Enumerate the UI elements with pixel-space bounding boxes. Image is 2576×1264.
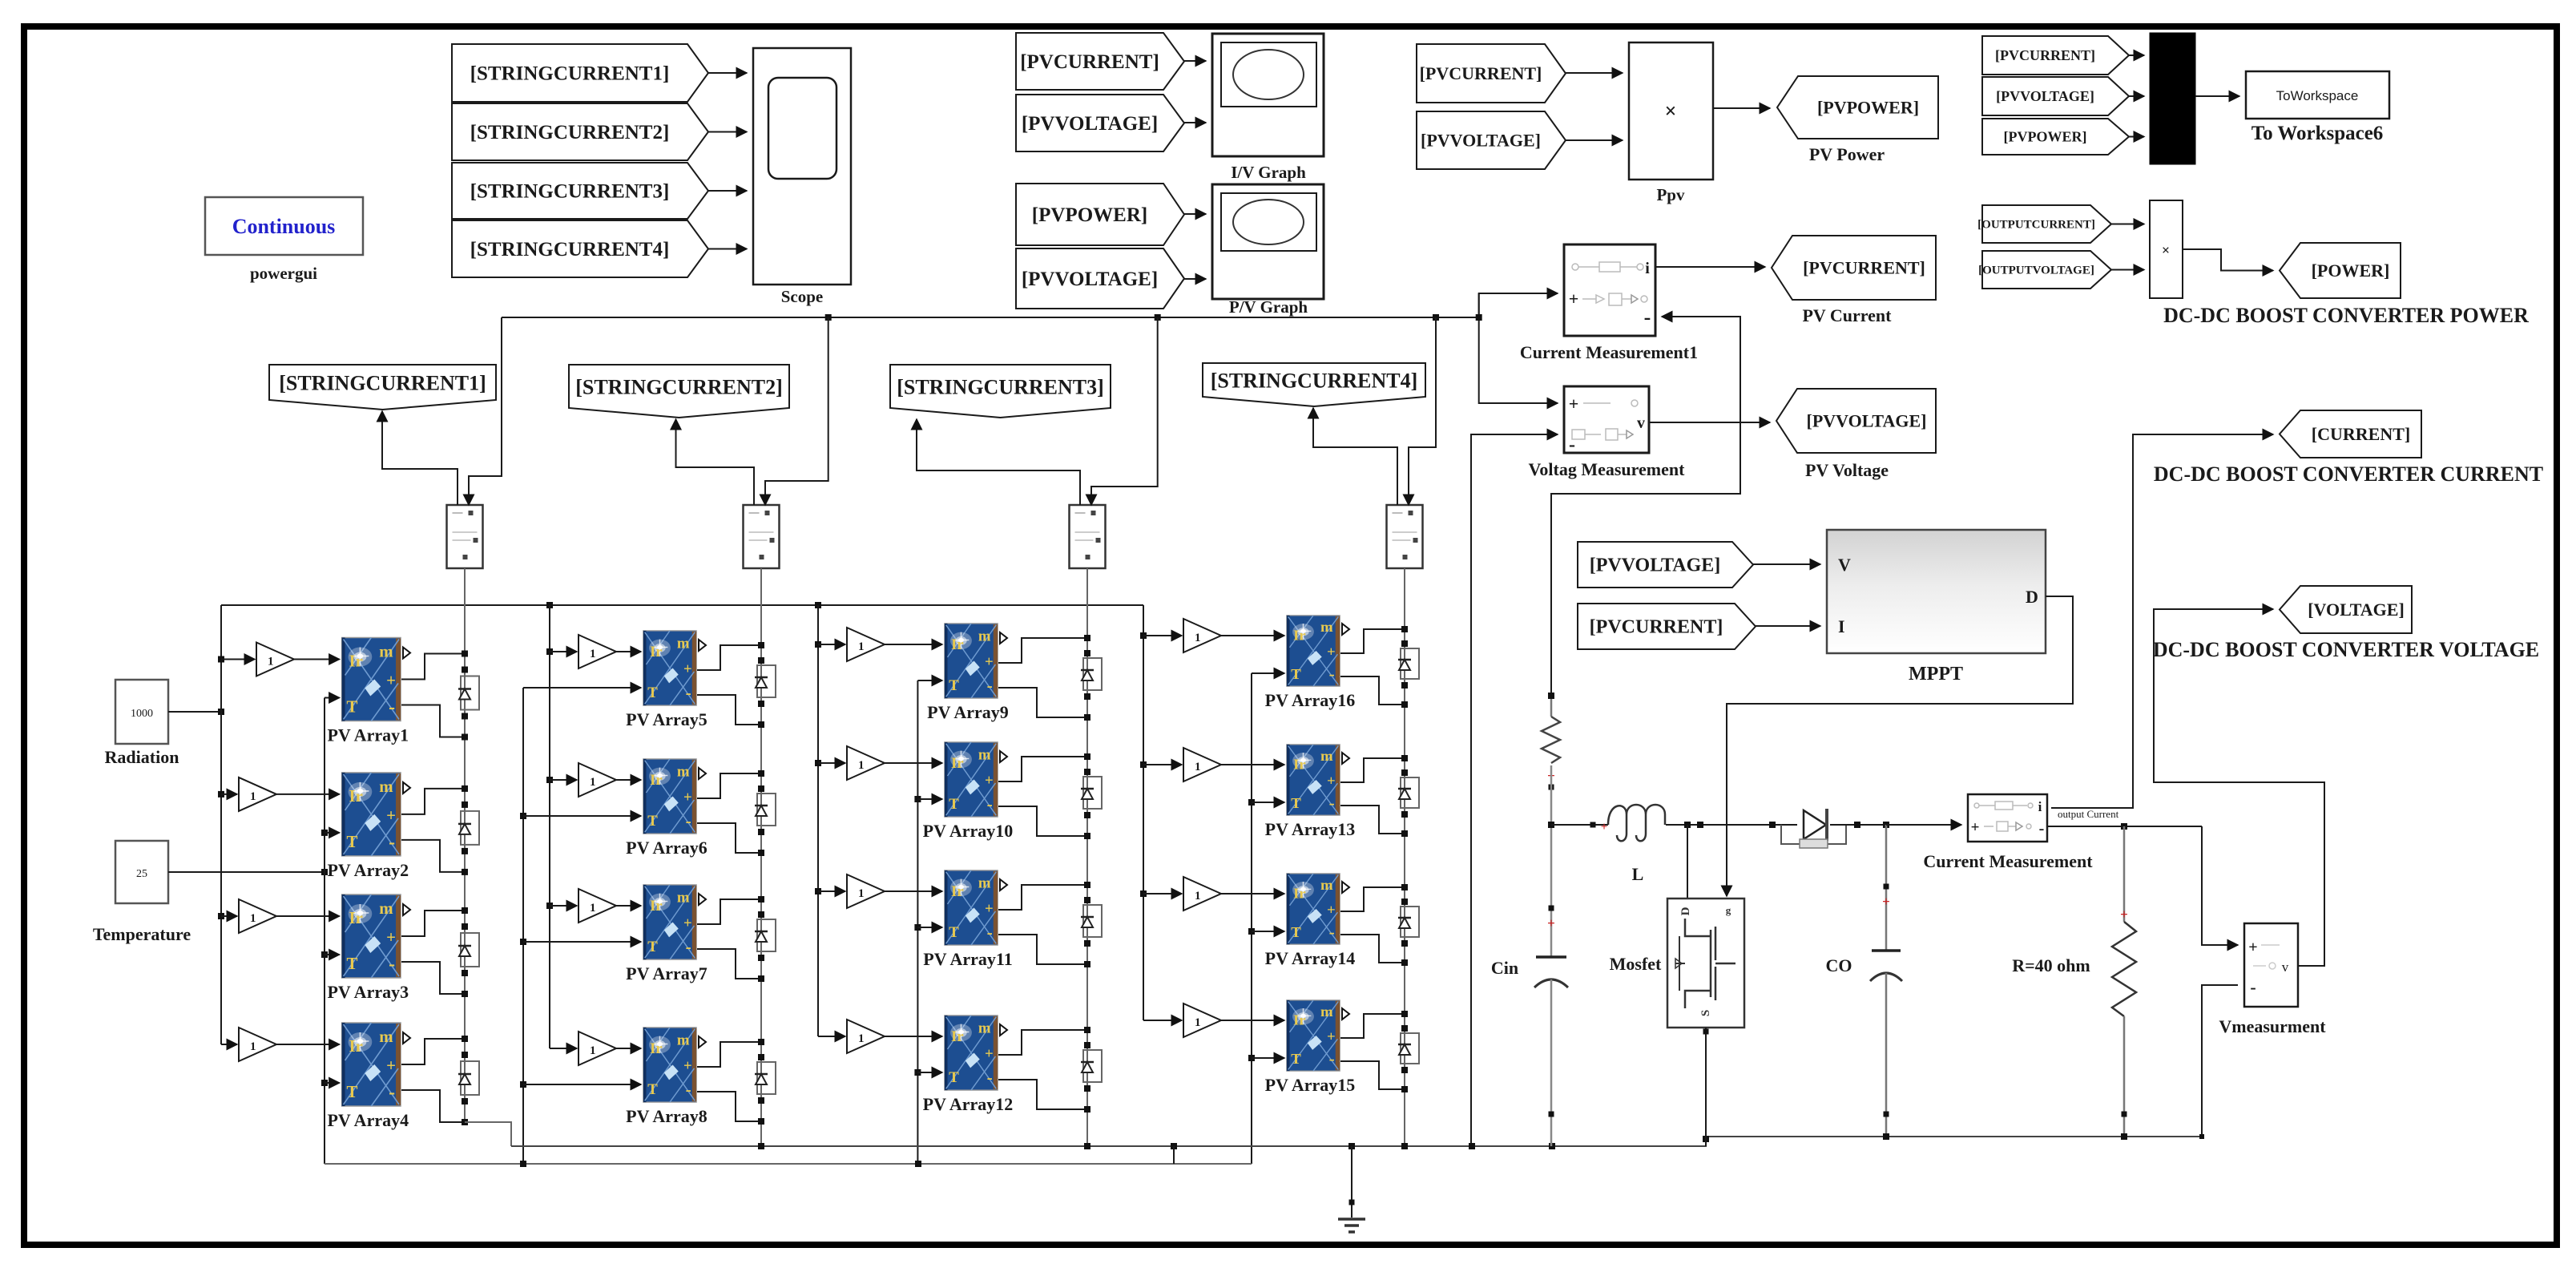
gain block string4 row4 bbox=[1183, 1004, 1221, 1037]
node temperature feed bbox=[321, 869, 328, 875]
wire radiation bus string4 bbox=[1143, 605, 1144, 1020]
wire - of PV Array13 to bus bbox=[1340, 806, 1405, 834]
bypass diode PV Array16 bbox=[1401, 648, 1419, 679]
wire radiation rail bbox=[221, 604, 1143, 606]
node - tap PV Array12 bbox=[1084, 1106, 1090, 1113]
node diode taps PV Array3 bbox=[462, 923, 468, 930]
node radiation tap string3 bbox=[815, 760, 821, 766]
svg-text:PV Array1: PV Array1 bbox=[327, 725, 409, 745]
wire radiation to gain s2r4 bbox=[550, 1048, 577, 1049]
node diode taps PV Array9 bbox=[1084, 650, 1090, 656]
wire radiation to gain s3r4 bbox=[818, 1036, 845, 1037]
svg-text:g: g bbox=[1726, 904, 1731, 916]
svg-text:i: i bbox=[1645, 260, 1650, 277]
PV array block PV Array6 bbox=[643, 759, 696, 834]
wire string2 i to tag bbox=[676, 419, 755, 505]
node - tap PV Array6 bbox=[758, 850, 764, 856]
bypass diode PV Array6 bbox=[757, 794, 776, 826]
svg-text:[OUTPUTVOLTAGE]: [OUTPUTVOLTAGE] bbox=[1978, 265, 2094, 277]
m port PV Array7 bbox=[699, 894, 706, 905]
wire gain to Ir s2r4 bbox=[616, 1048, 641, 1049]
svg-text:PV Array10: PV Array10 bbox=[923, 821, 1014, 841]
scope block Scope bbox=[753, 48, 851, 285]
wire + of PV Array8 to bus bbox=[697, 1042, 761, 1067]
node R bottom bbox=[2121, 1133, 2127, 1140]
svg-text:PV Array2: PV Array2 bbox=[327, 860, 409, 880]
From tag [PVPOWER] (to P/V Graph) bbox=[1016, 184, 1184, 245]
node temperature tap string4 bbox=[1248, 799, 1255, 806]
svg-text:output Current: output Current bbox=[2058, 808, 2119, 820]
wire radiation to gain s3r1 bbox=[818, 644, 845, 645]
wire string4 i to tag bbox=[1313, 408, 1397, 505]
PV array block PV Array3 bbox=[342, 894, 401, 978]
node + tap PV Array4 bbox=[462, 1036, 468, 1042]
port marker R bottom bbox=[2122, 1112, 2127, 1117]
svg-text:Current Measurement: Current Measurement bbox=[1923, 851, 2093, 871]
bypass diode PV Array8 bbox=[757, 1062, 776, 1094]
svg-text:[PVPOWER]: [PVPOWER] bbox=[1817, 97, 1919, 117]
From tag [STRINGCURRENT4] (to Scope) bbox=[452, 220, 708, 277]
From tag [PVVOLTAGE] (to I/V Graph) bbox=[1016, 95, 1184, 151]
wire temperature bus string2 bbox=[522, 688, 524, 1164]
wire temperature bus string4 bbox=[1251, 673, 1252, 1164]
node - tap PV Array7 bbox=[758, 975, 764, 982]
wire radiation bus string2 bbox=[549, 605, 550, 1048]
port marker Cin cap bbox=[1549, 906, 1554, 911]
node radiation tap string2 bbox=[546, 777, 553, 783]
node PV+ rail junctions bbox=[825, 314, 832, 321]
wire [PVCURRENT] to mux bbox=[2129, 55, 2144, 56]
gain block string3 row1 bbox=[847, 628, 885, 661]
I/V Graph scope block bbox=[1212, 34, 1324, 156]
wire + of PV Array12 to bus bbox=[998, 1030, 1087, 1055]
node diode taps PV Array2 bbox=[462, 802, 468, 808]
product block Ppv bbox=[1629, 42, 1713, 180]
node R branch top bbox=[2121, 823, 2127, 830]
svg-text:I: I bbox=[1838, 616, 1845, 636]
current measurement block string1 bbox=[447, 505, 483, 568]
wire T bus to T input s2r2 bbox=[523, 815, 641, 817]
wire [STRINGCURRENT2] to Scope bbox=[708, 131, 747, 133]
svg-text:+: + bbox=[2120, 907, 2128, 922]
wire + of PV Array5 to bus bbox=[697, 645, 761, 670]
m port PV Array11 bbox=[1000, 879, 1007, 890]
wire + of PV Array14 to bus bbox=[1340, 887, 1405, 911]
wire gain to Ir s3r2 bbox=[885, 762, 942, 764]
wire radiation to gain s1r3 bbox=[221, 915, 237, 917]
node + tap PV Array11 bbox=[1084, 882, 1090, 888]
svg-text:D: D bbox=[1679, 907, 1692, 915]
wire T bus to T input s3r1 bbox=[917, 680, 942, 681]
node Vmeasurment bottom corner bbox=[2199, 1134, 2204, 1139]
wire mux to To Workspace6 bbox=[2195, 95, 2239, 97]
svg-text:×: × bbox=[2162, 242, 2170, 258]
node + tap PV Array3 bbox=[462, 907, 468, 914]
node temperature tap string1 bbox=[321, 830, 328, 836]
wire radiation to gain s2r3 bbox=[550, 905, 577, 907]
wire radiation to gain s4r3 bbox=[1143, 893, 1182, 894]
gain block string2 row2 bbox=[578, 763, 616, 797]
svg-text:MPPT: MPPT bbox=[1909, 664, 1963, 684]
wire PV+ rail (strings to measurement) bbox=[502, 317, 1479, 318]
node + tap PV Array10 bbox=[1084, 753, 1090, 760]
svg-text:powergui: powergui bbox=[250, 264, 317, 283]
svg-text:PV Voltage: PV Voltage bbox=[1805, 460, 1889, 480]
wire - of PV Array4 to bus bbox=[401, 1090, 465, 1122]
wire T bus to T input s1r1 bbox=[325, 697, 340, 699]
svg-text:[OUTPUTCURRENT]: [OUTPUTCURRENT] bbox=[1977, 219, 2095, 232]
gain block string1 row2 bbox=[239, 777, 276, 811]
wire T bus to T input s3r4 bbox=[917, 1072, 942, 1073]
wire PVVOLTAGE to MPPT V bbox=[1753, 563, 1820, 565]
wire gain to Ir s1r4 bbox=[276, 1044, 340, 1045]
svg-text:[PVVOLTAGE]: [PVVOLTAGE] bbox=[1022, 113, 1158, 135]
wire + of PV Array3 to bus bbox=[401, 911, 465, 936]
wire output node down to Vmeasurment + bbox=[2202, 826, 2238, 945]
resistor R=40 ohm bbox=[2112, 922, 2136, 1016]
wire radiation to gain s4r4 bbox=[1143, 1020, 1182, 1021]
wire [PVPOWER] to mux bbox=[2129, 136, 2144, 138]
node diode taps PV Array11 bbox=[1084, 897, 1090, 903]
wire gain to Ir s2r2 bbox=[616, 779, 641, 781]
wire mosfet source to bus bbox=[1705, 1028, 1707, 1146]
node diode taps PV Array8 bbox=[758, 1054, 764, 1060]
Goto tag [STRINGCURRENT2] bbox=[569, 365, 789, 418]
m port PV Array15 bbox=[1342, 1008, 1349, 1020]
wire string3 i to tag bbox=[917, 419, 1080, 505]
wire + of PV Array1 to bus bbox=[401, 654, 465, 680]
node - tap PV Array15 bbox=[1401, 1086, 1408, 1092]
m port PV Array13 bbox=[1342, 753, 1349, 764]
wire PV+ node to Voltag Measurement + bbox=[1479, 293, 1558, 403]
node radiation rail junctions bbox=[546, 602, 553, 608]
svg-text:PV Array6: PV Array6 bbox=[626, 838, 707, 858]
wire string1 series bus bbox=[464, 568, 466, 1122]
gain block string4 row2 bbox=[1183, 748, 1221, 781]
node temperature tap string3 bbox=[914, 924, 921, 931]
wire boost rail left bbox=[1551, 824, 1608, 826]
svg-text:[POWER]: [POWER] bbox=[2312, 260, 2390, 281]
gain block string2 row1 bbox=[578, 635, 616, 668]
node diode taps PV Array12 bbox=[1084, 1042, 1090, 1048]
wire + of PV Array13 to bus bbox=[1340, 758, 1405, 782]
wire T bus to T input s1r3 bbox=[325, 954, 340, 955]
svg-text:v: v bbox=[2282, 959, 2289, 975]
svg-text:Temperature: Temperature bbox=[93, 924, 191, 944]
node temperature tap string2 bbox=[520, 813, 526, 819]
svg-text:+: + bbox=[1569, 394, 1579, 414]
node radiation tap string4 bbox=[1140, 632, 1147, 639]
wire gain to Ir s1r1 bbox=[294, 659, 340, 660]
node radiation tap string1 bbox=[218, 913, 224, 919]
svg-text:[PVCURRENT]: [PVCURRENT] bbox=[1420, 63, 1542, 83]
svg-text:Cin: Cin bbox=[1491, 958, 1518, 978]
bypass diode PV Array14 bbox=[1401, 907, 1419, 937]
wire T bus to T input s2r4 bbox=[523, 1084, 641, 1085]
node temperature tap string2 bbox=[520, 939, 526, 945]
wire - of PV Array5 to bus bbox=[697, 695, 761, 725]
svg-text:v: v bbox=[1637, 414, 1645, 432]
svg-text:CO: CO bbox=[1826, 955, 1852, 975]
svg-text:[STRINGCURRENT3]: [STRINGCURRENT3] bbox=[897, 375, 1104, 398]
wire T bus to T input s4r3 bbox=[1252, 931, 1284, 932]
svg-text:R=40 ohm: R=40 ohm bbox=[2012, 955, 2090, 975]
gain block string2 row3 bbox=[578, 889, 616, 923]
svg-text:PV Power: PV Power bbox=[1809, 144, 1885, 164]
current measurement block Current Measurement1 bbox=[1564, 244, 1655, 336]
wire MPPT D output to Mosfet gate bbox=[1727, 596, 2073, 896]
wire radiation to gain s2r2 bbox=[550, 779, 577, 781]
wire string4 top to PV+ rail bbox=[1409, 317, 1436, 505]
wire temperature bus string3 bbox=[917, 680, 918, 1164]
node after diode bbox=[1854, 822, 1860, 828]
svg-text:S: S bbox=[1699, 1010, 1712, 1016]
node mosfet source bbox=[1703, 1029, 1709, 1035]
wire Ppv to PVPOWER tag bbox=[1713, 107, 1770, 109]
wire boost rail inductor to diode bbox=[1666, 824, 1797, 826]
wire mosfet drain bbox=[1687, 825, 1688, 899]
wire R to bottom bus bbox=[2123, 1016, 2126, 1137]
wire Current Measurement - to output node bbox=[2047, 826, 2202, 827]
Goto tag [PVCURRENT] PV Current bbox=[1772, 236, 1936, 300]
node + tap PV Array9 bbox=[1084, 635, 1090, 641]
svg-text:ToWorkspace: ToWorkspace bbox=[2276, 88, 2359, 103]
gain block string3 row2 bbox=[847, 746, 885, 780]
wire OUTPUTCURRENT to product bbox=[2111, 224, 2144, 225]
svg-text:DC-DC BOOST CONVERTER CURRENT: DC-DC BOOST CONVERTER CURRENT bbox=[2154, 462, 2543, 486]
node temperature tap string3 bbox=[914, 1069, 921, 1076]
wire [STRINGCURRENT4] to Scope bbox=[708, 248, 747, 250]
wire Vmeasurment v to VOLTAGE tag bbox=[2154, 609, 2324, 966]
wire radiation to gain s1r1 bbox=[221, 659, 255, 660]
wire - of PV Array16 to bus bbox=[1340, 676, 1405, 705]
node + tap PV Array13 bbox=[1401, 755, 1408, 761]
bypass diode PV Array3 bbox=[461, 933, 479, 967]
wire gain to Ir s1r2 bbox=[276, 794, 340, 795]
From tag [PVVOLTAGE] (to P/V Graph) bbox=[1016, 248, 1184, 309]
port marker CO bbox=[1884, 884, 1889, 890]
wire radiation to gain s1r4 bbox=[221, 1044, 237, 1045]
svg-text:[STRINGCURRENT2]: [STRINGCURRENT2] bbox=[575, 375, 783, 398]
svg-text:[PVVOLTAGE]: [PVVOLTAGE] bbox=[1807, 410, 1927, 430]
node - tap PV Array8 bbox=[758, 1118, 764, 1125]
PV array block PV Array15 bbox=[1287, 1000, 1340, 1071]
wire + of PV Array6 to bus bbox=[697, 773, 761, 798]
wire - of PV Array6 to bus bbox=[697, 823, 761, 853]
gain block string1 row4 bbox=[239, 1028, 276, 1061]
svg-text:V: V bbox=[1838, 555, 1851, 575]
wire T bus to T input s3r2 bbox=[917, 798, 942, 800]
svg-text:To Workspace6: To Workspace6 bbox=[2251, 123, 2384, 144]
PV array block PV Array11 bbox=[945, 870, 998, 945]
svg-text:+: + bbox=[1547, 915, 1555, 931]
node radiation tap string4 bbox=[1140, 890, 1147, 897]
From tag [PVCURRENT] (to mux) bbox=[1982, 36, 2129, 75]
wire + of PV Array2 to bus bbox=[401, 789, 465, 814]
mux block (black) bbox=[2150, 33, 2195, 164]
wire + of PV Array15 to bus bbox=[1340, 1014, 1405, 1038]
m port PV Array1 bbox=[403, 648, 410, 659]
node - tap PV Array1 bbox=[462, 734, 468, 741]
svg-text:Radiation: Radiation bbox=[105, 747, 179, 767]
svg-text:+: + bbox=[1569, 289, 1579, 309]
voltage measurement block Voltag Measurement bbox=[1564, 386, 1649, 453]
wire + of PV Array10 to bus bbox=[998, 757, 1087, 781]
node temperature tap string2 bbox=[520, 1081, 526, 1088]
wire + of PV Array16 to bus bbox=[1340, 629, 1405, 653]
PV array block PV Array14 bbox=[1287, 874, 1340, 944]
Goto tag [VOLTAGE] bbox=[2280, 586, 2412, 633]
mosfet block Mosfet bbox=[1667, 899, 1744, 1028]
ground bbox=[1351, 1146, 1353, 1218]
wire string4 series bus bbox=[1404, 568, 1405, 1146]
node temperature rail junctions bbox=[520, 1161, 526, 1167]
gain block string1 row3 bbox=[239, 899, 276, 933]
node temperature tap string1 bbox=[321, 951, 328, 958]
Goto tag [STRINGCURRENT3] bbox=[890, 365, 1111, 418]
wire T bus to T input s4r2 bbox=[1252, 802, 1284, 803]
node + tap PV Array16 bbox=[1401, 626, 1408, 632]
powergui block bbox=[205, 197, 363, 255]
gain block string4 row3 bbox=[1183, 877, 1221, 911]
node - tap PV Array2 bbox=[462, 869, 468, 875]
port marker Cin bottom bbox=[1549, 1112, 1554, 1117]
node mosfet drain junction bbox=[1684, 822, 1691, 828]
wire Current Measurement1 - to Cin branch bbox=[1551, 317, 1740, 696]
resistor (Cin series R) bbox=[1542, 717, 1560, 763]
m port PV Array3 bbox=[403, 904, 410, 915]
svg-text:+: + bbox=[1601, 821, 1608, 834]
svg-text:PV Current: PV Current bbox=[1802, 305, 1892, 325]
current measurement block string3 bbox=[1070, 505, 1106, 568]
node + tap PV Array6 bbox=[758, 770, 764, 777]
svg-text:DC-DC BOOST CONVERTER VOLTAGE: DC-DC BOOST CONVERTER VOLTAGE bbox=[2153, 638, 2539, 661]
wire radiation to gain s3r3 bbox=[818, 890, 845, 892]
svg-text:I/V Graph: I/V Graph bbox=[1231, 163, 1306, 182]
svg-text:[PVVOLTAGE]: [PVVOLTAGE] bbox=[1022, 269, 1158, 290]
svg-text:[PVCURRENT]: [PVCURRENT] bbox=[1020, 51, 1159, 73]
From tag [OUTPUTVOLTAGE] bbox=[1982, 251, 2111, 289]
svg-text:[PVVOLTAGE]: [PVVOLTAGE] bbox=[1421, 130, 1541, 150]
svg-text:Scope: Scope bbox=[781, 287, 824, 306]
P/V Graph scope block bbox=[1212, 184, 1324, 299]
Goto tag [STRINGCURRENT1] bbox=[269, 365, 496, 410]
bypass diode PV Array5 bbox=[757, 665, 776, 697]
node CO bottom bbox=[1883, 1133, 1889, 1140]
wire Cin branch mid bbox=[1550, 765, 1553, 957]
svg-text:PV Array4: PV Array4 bbox=[327, 1110, 409, 1130]
wire Voltag Measurement v output to PVVOLTAGE tag bbox=[1649, 422, 1770, 423]
wire radiation to gain s2r1 bbox=[550, 651, 577, 652]
node + tap PV Array8 bbox=[758, 1039, 764, 1045]
node radiation tap string2 bbox=[546, 648, 553, 655]
bypass diode PV Array12 bbox=[1083, 1050, 1102, 1082]
svg-text:×: × bbox=[1665, 99, 1677, 123]
m port PV Array14 bbox=[1342, 882, 1349, 893]
PV array block PV Array12 bbox=[945, 1016, 998, 1090]
node radiation tap string3 bbox=[815, 641, 821, 648]
gain block string1 row1 bbox=[256, 643, 294, 676]
svg-text:[PVCURRENT]: [PVCURRENT] bbox=[1590, 617, 1723, 638]
From tag [PVCURRENT] (to Ppv) bbox=[1417, 44, 1566, 103]
wire R branch top bbox=[2123, 826, 2126, 922]
svg-text:PV Array13: PV Array13 bbox=[1265, 819, 1356, 839]
svg-text:[VOLTAGE]: [VOLTAGE] bbox=[2308, 600, 2405, 620]
node radiation tap string1 bbox=[218, 791, 224, 798]
wire gain to Ir s4r2 bbox=[1221, 764, 1284, 765]
svg-text:25: 25 bbox=[136, 868, 147, 880]
current measurement block Current Measurement (output) bbox=[1968, 794, 2047, 842]
Goto tag [CURRENT] bbox=[2280, 410, 2421, 458]
svg-text:[PVVOLTAGE]: [PVVOLTAGE] bbox=[1996, 88, 2094, 104]
wire PVCURRENT to Ppv bbox=[1566, 72, 1623, 74]
svg-text:[PVCURRENT]: [PVCURRENT] bbox=[1803, 257, 1925, 277]
current measurement block string4 bbox=[1387, 505, 1423, 568]
wire - of PV Array1 to bus bbox=[401, 705, 465, 737]
node temperature tap string4 bbox=[1248, 1055, 1255, 1061]
svg-text:Current Measurement1: Current Measurement1 bbox=[1520, 342, 1698, 362]
port marker L left bbox=[1590, 822, 1596, 828]
wire Current Measurement i to CURRENT tag bbox=[2051, 434, 2273, 808]
wire string1 bottom jog to bus bbox=[465, 1122, 511, 1146]
From tag [STRINGCURRENT1] (to Scope) bbox=[452, 44, 708, 102]
current measurement block string2 bbox=[744, 505, 780, 568]
wire string3 series bus bbox=[1086, 568, 1088, 1146]
node - tap PV Array9 bbox=[1084, 714, 1090, 721]
svg-text:i: i bbox=[2038, 799, 2042, 814]
node + tap PV Array12 bbox=[1084, 1027, 1090, 1033]
node radiation tap string1 bbox=[218, 656, 224, 663]
wire PVVOLTAGE to Ppv bbox=[1566, 139, 1623, 141]
PV array block PV Array10 bbox=[945, 742, 998, 817]
wire gain to Ir s2r1 bbox=[616, 651, 641, 652]
svg-text:PV Array3: PV Array3 bbox=[327, 982, 409, 1002]
wire strings negative bus bbox=[511, 1137, 2202, 1146]
svg-text:+: + bbox=[1882, 894, 1890, 909]
svg-text:-: - bbox=[1644, 305, 1651, 329]
gain block string3 row4 bbox=[847, 1020, 885, 1053]
PV array block PV Array2 bbox=[342, 773, 401, 856]
svg-text:P/V Graph: P/V Graph bbox=[1229, 297, 1308, 317]
svg-text:DC-DC BOOST CONVERTER POWER: DC-DC BOOST CONVERTER POWER bbox=[2163, 304, 2529, 327]
node diode taps PV Array1 bbox=[462, 667, 468, 673]
wire - of PV Array11 to bus bbox=[998, 935, 1087, 964]
node diode taps PV Array6 bbox=[758, 785, 764, 792]
wire gain to Ir s3r1 bbox=[885, 644, 942, 645]
PV array block PV Array13 bbox=[1287, 745, 1340, 815]
svg-text:[CURRENT]: [CURRENT] bbox=[2312, 424, 2410, 444]
node - tap PV Array10 bbox=[1084, 833, 1090, 839]
m port PV Array16 bbox=[1342, 624, 1349, 635]
wire - of PV Array9 to bus bbox=[998, 688, 1087, 717]
wire PVPOWER to P/V Graph bbox=[1184, 213, 1206, 215]
m port PV Array6 bbox=[699, 768, 706, 779]
node diode taps PV Array16 bbox=[1401, 640, 1408, 647]
wire gain to Ir s3r3 bbox=[885, 890, 942, 892]
wire radiation bus string1 bbox=[220, 605, 222, 1044]
m port PV Array2 bbox=[403, 782, 410, 794]
svg-text:Continuous: Continuous bbox=[232, 215, 336, 238]
wire string1 i to tag bbox=[382, 411, 458, 505]
m port PV Array12 bbox=[1000, 1024, 1007, 1036]
svg-text:-: - bbox=[2039, 820, 2045, 838]
node diode taps PV Array7 bbox=[758, 911, 764, 918]
wire [STRINGCURRENT1] to Scope bbox=[708, 72, 747, 74]
port marker CO bottom bbox=[1884, 1112, 1889, 1117]
svg-text:[STRINGCURRENT4]: [STRINGCURRENT4] bbox=[1211, 369, 1418, 392]
svg-text:[PVCURRENT]: [PVCURRENT] bbox=[1995, 47, 2095, 63]
bypass diode PV Array1 bbox=[461, 676, 479, 710]
